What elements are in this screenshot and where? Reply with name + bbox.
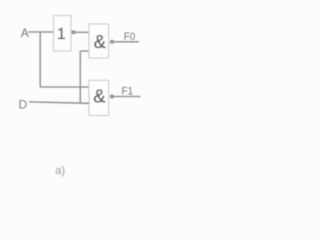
- wire AND2 output: [114, 96, 141, 98]
- inverter U1 box: [54, 16, 71, 51]
- wire A branch vertical: [39, 32, 41, 87]
- svg-text:F1: F1: [122, 86, 134, 98]
- wire inverter output to AND1 input: [75, 31, 89, 33]
- wire D to AND2 input: [29, 102, 90, 103]
- wire AND1 output: [114, 41, 139, 43]
- wire A branch horizontal to AND2 input: [40, 86, 89, 88]
- AND gate U2 box: [89, 24, 109, 58]
- svg-text:A: A: [21, 26, 29, 40]
- svg-text:a): a): [55, 165, 65, 177]
- inverter U1 output bubble: [72, 31, 75, 34]
- svg-text:1: 1: [57, 26, 66, 43]
- AND gate U3 box: [89, 80, 109, 115]
- wire A to inverter input: [28, 31, 54, 33]
- svg-text:&: &: [93, 85, 106, 106]
- AND gate U3 output bubble: [111, 95, 114, 98]
- svg-text:&: &: [94, 31, 107, 52]
- AND gate U2 output bubble: [111, 40, 114, 43]
- wire D branch horizontal to AND1 input: [80, 50, 89, 52]
- svg-text:F0: F0: [124, 31, 136, 43]
- wire D branch vertical to AND1: [79, 51, 81, 103]
- svg-text:D: D: [18, 98, 27, 112]
